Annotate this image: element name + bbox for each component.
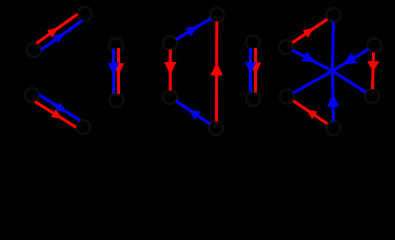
star node TOP <box>327 8 341 22</box>
red arrow BR to TR (up) <box>210 22 223 122</box>
star node TL <box>279 40 293 54</box>
red arrow A to B (NE) <box>36 14 77 43</box>
node A (sec1 left-upper) <box>27 43 41 57</box>
blue arrow BR to BL (NW) <box>176 101 210 124</box>
node F (sec2 bottom) <box>110 93 124 107</box>
blue arrow G to H (down) <box>245 48 256 93</box>
node C (sec1 left-lower) <box>25 88 39 102</box>
red arrow E to F (down) <box>113 48 124 94</box>
node B (sec1 top-right) <box>78 7 92 21</box>
blue arrow A to B (NE) <box>41 21 82 50</box>
node TR (sec3) <box>210 8 224 22</box>
blue arrow E to F (down) <box>108 49 119 94</box>
node TL (sec3) <box>163 36 177 50</box>
star node BR <box>365 89 379 103</box>
blue line star center to BL <box>293 71 332 93</box>
node BL (sec3) <box>163 90 177 104</box>
node H (sec4 bottom) <box>246 92 260 106</box>
blue arrow TL to TR (NE) <box>176 19 211 40</box>
blue line star center to TOP <box>331 22 335 71</box>
blue line star center to BR <box>333 71 367 92</box>
star node TR <box>368 39 382 53</box>
star node BL <box>280 90 294 104</box>
node D (sec1 bottom-right) <box>76 120 90 134</box>
blue arrow star BOT to center (up) <box>327 71 339 121</box>
blue arrow star TL to center (SE) <box>292 50 332 71</box>
node E (sec2 top) <box>109 39 123 53</box>
red arrow star TL to TOP (NE) <box>292 19 327 43</box>
red arrow C to D (SE) <box>35 102 76 128</box>
star node BOT <box>327 121 341 135</box>
blue arrow star TR to center (SW) <box>333 49 369 71</box>
node G (sec4 top) <box>246 36 260 50</box>
red arrow star BOT to BL (NW) <box>293 101 327 124</box>
red arrow star TR to BR (down) <box>367 53 379 90</box>
blue arrow C to D (SE) <box>39 95 80 121</box>
node BR (sec3) <box>209 121 223 135</box>
red arrow TL to BL (down) <box>164 50 177 91</box>
red arrow G to H (down) <box>250 48 261 93</box>
